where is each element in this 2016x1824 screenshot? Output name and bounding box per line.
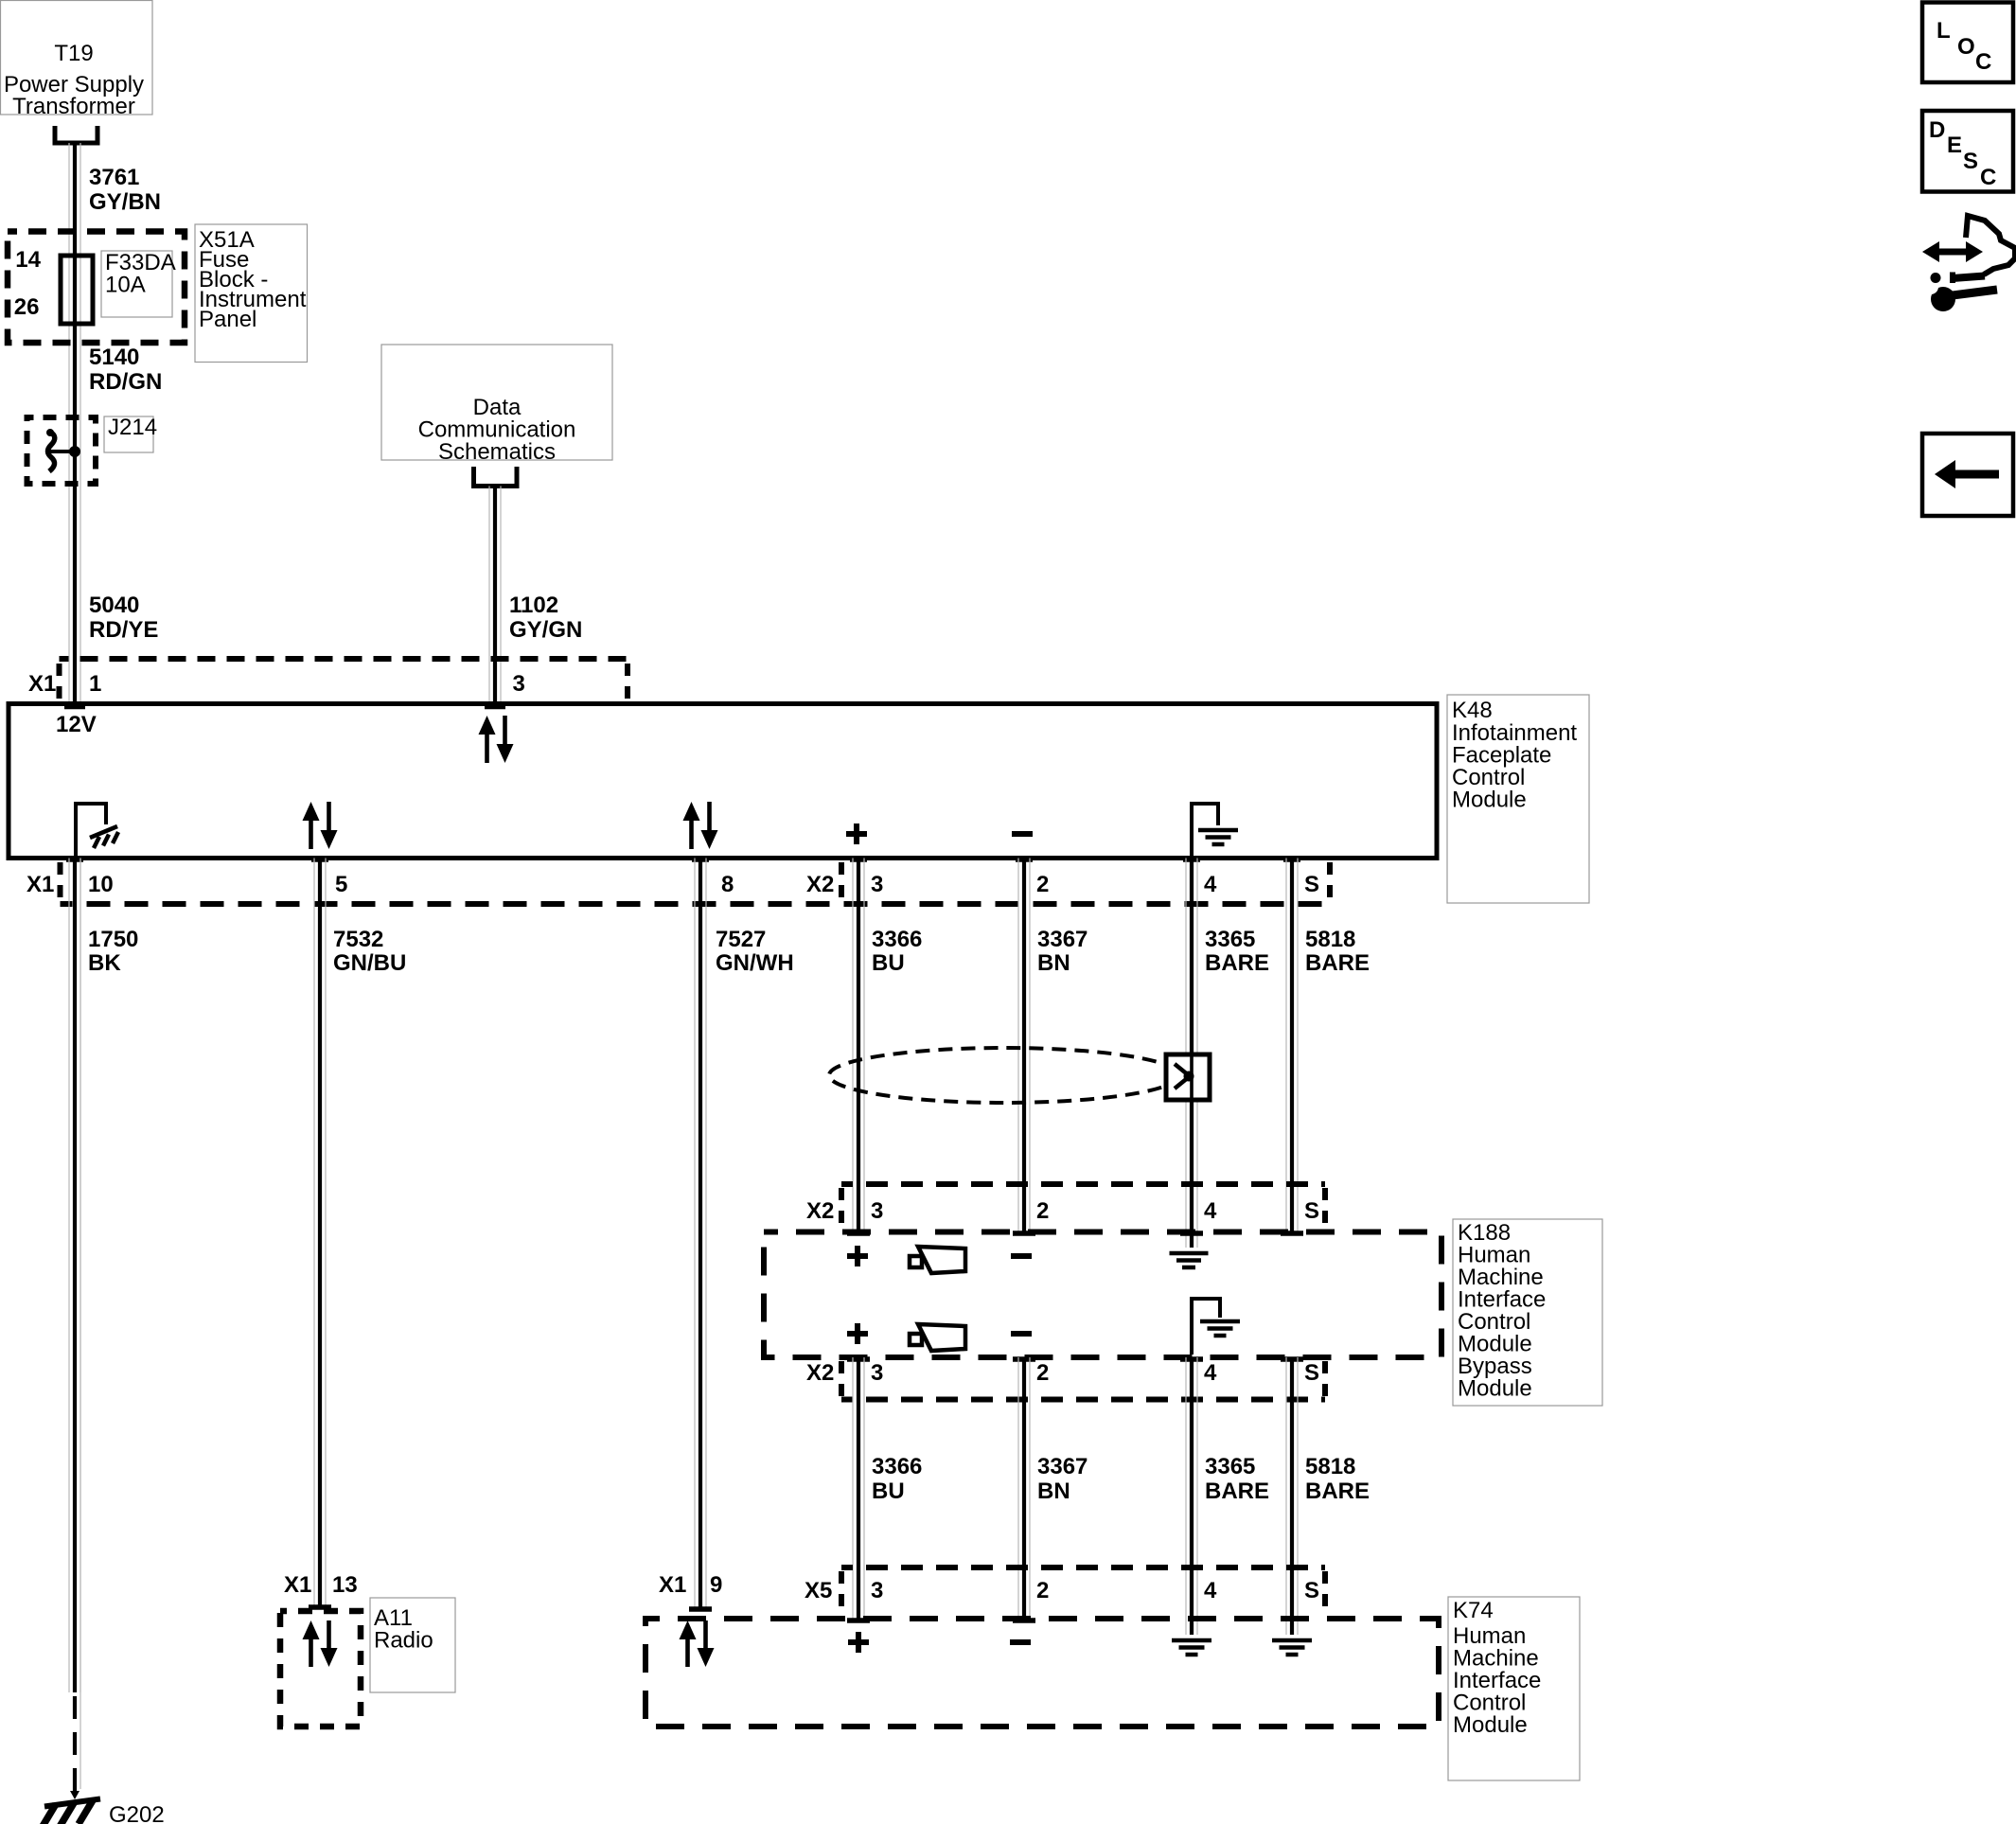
svg-text:S: S bbox=[1304, 1360, 1319, 1386]
svg-text:Schematics: Schematics bbox=[438, 439, 556, 465]
svg-text:5140: 5140 bbox=[89, 345, 139, 370]
svg-text:K48: K48 bbox=[1452, 698, 1493, 723]
svg-text:GN/BU: GN/BU bbox=[333, 950, 406, 976]
svg-text:BU: BU bbox=[872, 1479, 905, 1504]
svg-text:X2: X2 bbox=[806, 872, 834, 897]
svg-text:BN: BN bbox=[1037, 950, 1070, 976]
svg-text:S: S bbox=[1304, 872, 1319, 897]
svg-text:X1: X1 bbox=[27, 872, 54, 897]
svg-text:Panel: Panel bbox=[199, 307, 256, 332]
svg-text:3761: 3761 bbox=[89, 165, 139, 190]
svg-text:10: 10 bbox=[88, 872, 114, 897]
svg-text:Module: Module bbox=[1453, 1712, 1528, 1738]
svg-text:2: 2 bbox=[1036, 1360, 1049, 1386]
svg-text:D: D bbox=[1929, 117, 1945, 143]
svg-text:Radio: Radio bbox=[374, 1628, 433, 1654]
svg-text:2: 2 bbox=[1036, 872, 1049, 897]
svg-text:5: 5 bbox=[335, 872, 347, 897]
svg-text:2: 2 bbox=[1036, 1578, 1049, 1603]
svg-text:X5: X5 bbox=[805, 1578, 832, 1603]
svg-text:S: S bbox=[1304, 1578, 1319, 1603]
svg-text:BARE: BARE bbox=[1205, 1479, 1269, 1504]
svg-text:1102: 1102 bbox=[509, 593, 558, 618]
svg-text:3366: 3366 bbox=[872, 927, 922, 952]
svg-text:J214: J214 bbox=[108, 415, 157, 440]
svg-text:BK: BK bbox=[88, 950, 121, 976]
svg-text:Transformer: Transformer bbox=[12, 94, 135, 119]
svg-text:X1: X1 bbox=[284, 1572, 311, 1598]
svg-text:4: 4 bbox=[1204, 872, 1217, 897]
svg-text:3: 3 bbox=[871, 872, 883, 897]
svg-text:1750: 1750 bbox=[88, 927, 138, 952]
svg-text:E: E bbox=[1947, 133, 1962, 158]
svg-text:RD/YE: RD/YE bbox=[89, 617, 158, 643]
svg-text:3: 3 bbox=[871, 1360, 883, 1386]
svg-text:BARE: BARE bbox=[1205, 950, 1269, 976]
svg-text:3: 3 bbox=[871, 1578, 883, 1603]
svg-text:3: 3 bbox=[513, 671, 525, 697]
svg-text:14: 14 bbox=[15, 247, 41, 273]
svg-text:BN: BN bbox=[1037, 1479, 1070, 1504]
svg-text:S: S bbox=[1963, 149, 1978, 174]
svg-text:X1: X1 bbox=[659, 1572, 686, 1598]
svg-text:3367: 3367 bbox=[1037, 1454, 1088, 1479]
svg-text:1: 1 bbox=[89, 671, 101, 697]
svg-text:S: S bbox=[1304, 1198, 1319, 1224]
svg-text:BARE: BARE bbox=[1305, 950, 1370, 976]
svg-text:T19: T19 bbox=[54, 41, 93, 66]
svg-text:3365: 3365 bbox=[1205, 927, 1255, 952]
svg-text:12V: 12V bbox=[56, 712, 97, 737]
svg-text:3366: 3366 bbox=[872, 1454, 922, 1479]
svg-text:X2: X2 bbox=[806, 1360, 834, 1386]
svg-text:C: C bbox=[1975, 49, 1991, 75]
svg-text:Module: Module bbox=[1452, 788, 1527, 813]
svg-text:5818: 5818 bbox=[1305, 927, 1355, 952]
svg-text:5818: 5818 bbox=[1305, 1454, 1355, 1479]
svg-text:G202: G202 bbox=[109, 1802, 165, 1824]
svg-text:Module: Module bbox=[1458, 1376, 1532, 1402]
svg-text:X2: X2 bbox=[806, 1198, 834, 1224]
svg-text:5040: 5040 bbox=[89, 593, 139, 618]
svg-text:10A: 10A bbox=[105, 273, 146, 298]
svg-text:26: 26 bbox=[14, 294, 40, 320]
svg-text:L: L bbox=[1936, 18, 1951, 44]
svg-text:9: 9 bbox=[710, 1572, 722, 1598]
svg-text:GY/BN: GY/BN bbox=[89, 189, 161, 215]
svg-text:13: 13 bbox=[332, 1572, 358, 1598]
svg-text:2: 2 bbox=[1036, 1198, 1049, 1224]
svg-text:4: 4 bbox=[1204, 1360, 1217, 1386]
svg-text:3367: 3367 bbox=[1037, 927, 1088, 952]
svg-text:RD/GN: RD/GN bbox=[89, 369, 162, 395]
svg-text:C: C bbox=[1980, 165, 1996, 190]
svg-text:7532: 7532 bbox=[333, 927, 383, 952]
svg-text:8: 8 bbox=[721, 872, 734, 897]
svg-text:4: 4 bbox=[1204, 1578, 1217, 1603]
svg-text:3: 3 bbox=[871, 1198, 883, 1224]
svg-text:O: O bbox=[1957, 34, 1975, 60]
svg-text:3365: 3365 bbox=[1205, 1454, 1255, 1479]
svg-text:7527: 7527 bbox=[716, 927, 766, 952]
svg-text:4: 4 bbox=[1204, 1198, 1217, 1224]
svg-text:BU: BU bbox=[872, 950, 905, 976]
svg-text:X1: X1 bbox=[28, 671, 56, 697]
svg-text:BARE: BARE bbox=[1305, 1479, 1370, 1504]
svg-text:K74: K74 bbox=[1453, 1598, 1494, 1623]
svg-text:GY/GN: GY/GN bbox=[509, 617, 582, 643]
svg-text:GN/WH: GN/WH bbox=[716, 950, 794, 976]
